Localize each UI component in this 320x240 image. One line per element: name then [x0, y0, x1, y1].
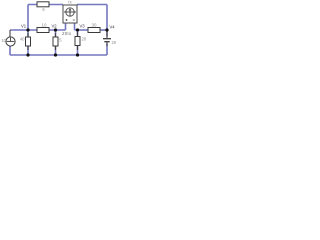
bottom junction dot x28	[26, 53, 29, 56]
svg-text:5: 5	[59, 37, 62, 42]
node V4 junction dot	[105, 28, 108, 31]
svg-text:V3: V3	[80, 24, 86, 29]
wire top right segment	[77, 4, 107, 6]
node V1 junction dot	[26, 28, 29, 31]
wire middle row V1 to meter stub	[49, 29, 66, 31]
svg-text:V1: V1	[21, 24, 27, 29]
wire source bottom lead	[9, 46, 11, 55]
svg-text:10: 10	[1, 38, 6, 43]
svg-text:30: 30	[92, 23, 97, 28]
svg-text:20: 20	[112, 40, 117, 45]
wire middle row left of V1	[10, 29, 37, 31]
svg-text:20: 20	[82, 36, 87, 41]
wire right vertical from top to bottom right	[106, 5, 108, 56]
resistor R top (6 ohm)	[37, 2, 49, 12]
wire bottom horizontal	[10, 54, 107, 56]
svg-text:6: 6	[42, 7, 45, 12]
bottom junction dot x77.5	[76, 53, 79, 56]
resistor 30 ohm horizontal	[88, 23, 100, 33]
node V3 junction dot	[76, 28, 79, 31]
ammeter Ix	[63, 0, 77, 23]
wire source top lead	[9, 30, 11, 37]
svg-text:20Ix: 20Ix	[62, 31, 72, 36]
wire meter stub to node V3	[75, 29, 89, 31]
voltage source 10 V	[1, 37, 15, 46]
svg-text:10: 10	[42, 23, 47, 28]
svg-text:V2: V2	[52, 24, 58, 29]
svg-text:Ix: Ix	[68, 0, 72, 5]
svg-text:40: 40	[20, 37, 25, 42]
wire meter right stub	[74, 23, 76, 30]
resistor 20 ohm vertical	[75, 36, 87, 45]
capacitor 20	[103, 32, 117, 47]
wire branch lead x55.5	[55, 30, 57, 55]
wire branch lead x77.5	[77, 30, 79, 55]
resistor 40 ohm vertical	[20, 37, 31, 47]
node V2 junction dot	[54, 28, 57, 31]
bottom junction dot x55.5	[54, 53, 57, 56]
wire meter left stub	[65, 23, 67, 30]
resistor 5 ohm vertical	[53, 37, 62, 46]
capacitor C1 lead mask	[102, 37, 113, 44]
wire V3 resistor to node V4	[100, 29, 107, 31]
resistor 10 ohm horizontal	[37, 23, 49, 33]
wire left vertical from top to node V1	[27, 5, 29, 31]
wire top horizontal	[28, 4, 63, 6]
svg-text:V4: V4	[110, 25, 116, 30]
wire branch lead x28	[27, 30, 29, 55]
